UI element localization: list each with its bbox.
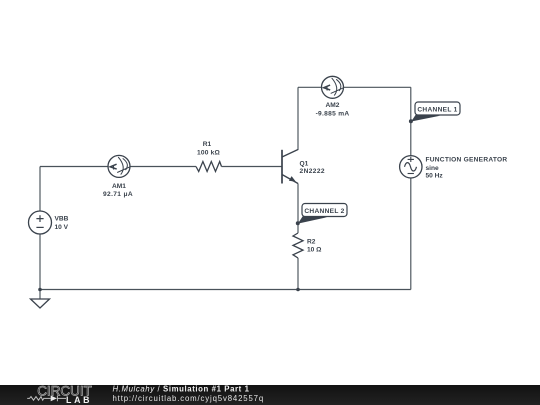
VBB minus sign — [36, 226, 43, 228]
wire: base wire right segment to Q1 base — [222, 166, 283, 168]
svg-text:R1: R1 — [203, 141, 212, 148]
svg-text:2N2222: 2N2222 — [300, 168, 326, 175]
svg-text:Q1: Q1 — [300, 160, 309, 167]
wire: emitter vertical to R2 — [297, 184, 299, 234]
VBB circle — [29, 211, 52, 234]
ground — [31, 299, 50, 308]
Q1 emitter lead — [282, 175, 298, 184]
junction: R2 bottom node — [296, 288, 300, 292]
svg-text:H.Mulcahy / Simulation #1 Part: H.Mulcahy / Simulation #1 Part 1 — [113, 385, 250, 394]
svg-text:100 kΩ: 100 kΩ — [197, 149, 221, 156]
wire: ground stub — [39, 290, 41, 300]
svg-text:10 Ω: 10 Ω — [307, 247, 322, 254]
svg-text:CHANNEL 2: CHANNEL 2 — [304, 208, 344, 215]
CHANNEL 2 callout box — [302, 204, 347, 217]
svg-text:VBB: VBB — [55, 215, 69, 222]
wire: top horizontal through AM2 — [298, 86, 411, 88]
function generator sine wave — [405, 163, 417, 171]
resistor R1 zigzag — [196, 162, 222, 172]
Q1 base bar — [281, 150, 283, 184]
voltage source VBB — [29, 211, 69, 234]
function generator V1 — [400, 156, 508, 180]
ammeter AM2 — [316, 76, 350, 117]
wire: collector vertical — [297, 87, 299, 150]
junction: bottom-left node — [38, 288, 42, 292]
node CHANNEL 2 probe dot — [296, 221, 300, 225]
function generator circle — [400, 156, 422, 178]
Q1 collector lead — [282, 150, 298, 158]
VBB plus sign — [36, 215, 43, 222]
wire: left vertical through VBB — [39, 167, 41, 290]
CHANNEL 1 callout box — [415, 102, 460, 115]
wire: right vertical through function generator — [410, 87, 412, 289]
svg-text:FUNCTION GENERATOR: FUNCTION GENERATOR — [426, 156, 508, 163]
callout CHANNEL 2 — [296, 204, 347, 226]
svg-text:50 Hz: 50 Hz — [426, 173, 444, 180]
ammeter AM2 symbol — [322, 76, 344, 98]
resistor R2 — [293, 233, 322, 258]
wire: R2 to bottom rail — [297, 258, 299, 290]
svg-text:92.71 μA: 92.71 μA — [103, 191, 133, 198]
svg-text:sine: sine — [426, 165, 440, 172]
resistor R2 zigzag — [293, 233, 303, 258]
footer bar — [0, 385, 540, 405]
svg-text:CHANNEL 1: CHANNEL 1 — [417, 106, 457, 113]
ammeter AM1 symbol — [108, 155, 130, 177]
svg-text:R2: R2 — [307, 238, 316, 245]
wire: base wire left segment (node B net) — [40, 166, 196, 168]
wire: bottom rail — [40, 289, 411, 291]
function generator minus sign — [408, 173, 414, 175]
CHANNEL 2 callout tail — [298, 215, 327, 224]
svg-text:LAB: LAB — [66, 395, 90, 405]
function generator plus sign — [408, 157, 414, 162]
CHANNEL 1 callout tail — [411, 114, 440, 122]
ammeter AM1 — [103, 155, 133, 198]
logo resistor-diode glyph — [27, 396, 66, 402]
Q1 emitter arrow — [289, 176, 296, 182]
svg-text:-9.885 mA: -9.885 mA — [316, 111, 350, 118]
callout CHANNEL 1 — [409, 102, 460, 123]
svg-text:AM1: AM1 — [112, 183, 126, 190]
transistor Q1 — [282, 150, 325, 184]
node CHANNEL 1 probe dot — [409, 119, 413, 123]
svg-text:10 V: 10 V — [55, 224, 69, 231]
resistor R1 — [196, 141, 222, 172]
svg-text:http://circuitlab.com/cyjq5v84: http://circuitlab.com/cyjq5v842557q — [113, 394, 265, 403]
svg-text:AM2: AM2 — [326, 102, 340, 109]
